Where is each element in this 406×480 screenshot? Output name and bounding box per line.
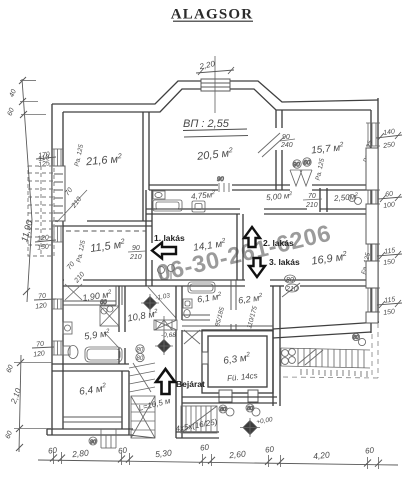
window box with X room 10,8	[154, 320, 177, 330]
wall stub between 6,4 and entry stairs	[129, 435, 155, 438]
window right 60/100	[366, 190, 380, 204]
svg-text:80: 80	[137, 348, 144, 354]
wall between 14,1 and 16,9	[237, 214, 243, 280]
bottom dim ticks	[50, 455, 382, 467]
svg-text:1. lakás: 1. lakás	[154, 233, 185, 243]
room 1,90 walls	[63, 286, 122, 305]
wall between 11,5 and 14,1	[146, 190, 152, 286]
staircase tread dashes below	[301, 369, 367, 377]
door swing 1,90	[65, 284, 82, 300]
right wall pilasters	[366, 148, 378, 323]
main lower band wall y=280	[63, 280, 371, 286]
wall between 6,1 and 6,2	[231, 280, 236, 331]
window left 2 (120/150)	[52, 226, 63, 242]
left wall pilaster between windows	[52, 166, 65, 221]
svg-text:Bejárat: Bejárat	[176, 379, 205, 389]
lower X staircase left of entry	[131, 396, 155, 438]
staircase dashed surround	[283, 323, 378, 378]
entry staircase	[181, 406, 217, 433]
room 21,6 bottom wall	[55, 221, 152, 226]
svg-text:2,80: 2,80	[71, 448, 90, 460]
door swing 14,1 to 10,8	[148, 287, 176, 318]
chimney flue below bottom wall	[89, 429, 116, 448]
svg-text:60: 60	[48, 446, 58, 456]
left dim upper ticks	[19, 77, 30, 295]
washbasin in bathroom	[63, 322, 72, 334]
svg-text:60: 60	[304, 161, 311, 167]
circled 80 labels below 6,3	[219, 404, 260, 416]
svg-text:90: 90	[293, 163, 300, 169]
left dim line upper	[22, 79, 32, 302]
svg-text:80: 80	[286, 277, 294, 284]
svg-text:-0,68: -0,68	[161, 332, 176, 339]
bathroom bottom wall / 6,4 top wall	[52, 364, 129, 371]
bathtub	[85, 347, 122, 362]
window left 4 (70/120)	[52, 341, 63, 355]
arrow Bejárat up	[156, 369, 175, 394]
marker -1,03	[141, 292, 171, 312]
room 6,3 bottom wall	[182, 397, 277, 403]
kitchen stove corridor	[192, 201, 205, 212]
svg-text:80: 80	[137, 356, 144, 362]
chimney on top bump	[201, 79, 230, 91]
left dim line lower	[19, 355, 21, 452]
triangle above -0,68	[156, 316, 172, 338]
shower box with X in 1,90/5,9	[100, 300, 119, 326]
left dim top labels 40 60	[7, 88, 18, 117]
kitchen counter corridor	[153, 200, 182, 211]
window right 140/250 labels	[376, 128, 402, 150]
door threshold marks 20,5	[217, 177, 229, 192]
right outer wall	[371, 98, 378, 333]
svg-text:210: 210	[129, 254, 142, 261]
top-left outer wall	[52, 81, 378, 112]
circled 80 labels above staircase	[352, 333, 365, 345]
wall above 6,3	[182, 326, 273, 331]
arrow 3 down	[249, 258, 265, 277]
svg-text:80: 80	[353, 335, 359, 341]
svg-text:60: 60	[200, 443, 210, 453]
window right 115/150 upper labels	[377, 247, 402, 267]
svg-text:60: 60	[118, 446, 128, 456]
svg-text:70: 70	[308, 193, 316, 200]
svg-text:80: 80	[247, 406, 254, 412]
door label 90/240 with leaders	[258, 133, 295, 157]
door label 70/210 room 21,6	[64, 187, 83, 211]
left dim lower ticks	[16, 359, 24, 451]
left dim lower stubs	[14, 363, 52, 429]
window left 1 labels	[36, 151, 56, 169]
left dim top stubs	[20, 81, 46, 115]
svg-text:ALAGSOR: ALAGSOR	[171, 7, 254, 23]
exterior stair hatch left (dashed)	[28, 166, 54, 256]
window left 3 (70/120)	[52, 299, 63, 309]
kitchen sink box corridor	[153, 191, 165, 199]
marker -0,68	[155, 332, 176, 355]
corridor top wall	[149, 185, 371, 190]
svg-text:4,20: 4,20	[313, 450, 331, 462]
svg-text:90: 90	[132, 245, 140, 252]
svg-text:2. lakás: 2. lakás	[263, 238, 294, 248]
window left 2 labels	[35, 235, 56, 252]
WC in bathroom	[63, 346, 78, 359]
door label 70/210 at 1,90	[66, 261, 86, 285]
window right 115/150 upper	[366, 244, 380, 261]
corridor bottom wall	[146, 209, 371, 214]
left outer wall	[52, 104, 63, 435]
svg-text:60: 60	[265, 445, 275, 455]
stair hatch label 110	[38, 154, 50, 163]
entry bottom wall	[176, 432, 219, 438]
window left 1 (170/125)	[52, 149, 63, 166]
window left 3 labels	[34, 293, 56, 311]
bottom-right wall	[273, 322, 379, 338]
folding door V symbol 15,7	[290, 158, 312, 186]
door label 70/210	[303, 193, 322, 209]
room 6,3 box	[202, 330, 273, 393]
door label 90/210 room 11,5	[128, 245, 146, 261]
wall between 5,9 and 10,8	[119, 286, 125, 364]
svg-text:60: 60	[100, 300, 107, 306]
window right 115/150 lower	[366, 288, 380, 312]
marker +0,00	[240, 416, 274, 437]
washbasin room 6,1	[183, 299, 192, 318]
door swing 21,6 to 11,5	[57, 190, 87, 222]
bottom dim witness stubs	[54, 452, 379, 469]
door swing 5,9	[104, 332, 119, 348]
door label stacked left of entry	[136, 345, 144, 362]
door label 80/210 room 16,9	[282, 275, 300, 297]
bottom dimension line	[38, 460, 398, 465]
bathtub room 6,1	[188, 282, 215, 293]
room 6,4 right wall	[122, 371, 129, 435]
bottom-right exterior staircase	[281, 348, 370, 368]
window left 4 labels	[32, 341, 54, 359]
svg-text:3. lakás: 3. lakás	[269, 257, 300, 267]
svg-text:ΒΠ : 2,55: ΒΠ : 2,55	[183, 118, 230, 130]
room 6,3 piers	[202, 352, 258, 402]
svg-text:2,60: 2,60	[228, 449, 247, 461]
wall between 21,6 and 20,5	[143, 112, 149, 221]
room 6,4 inner bottom wall	[63, 417, 122, 422]
dashed ceiling line room 11,5	[66, 230, 146, 232]
bottom dim numbers	[48, 443, 375, 462]
svg-text:90: 90	[217, 177, 224, 183]
top dim 2,20	[196, 59, 234, 75]
wall between 20,5 and 15,7	[276, 110, 282, 190]
small corner steps left of entry	[129, 363, 155, 392]
svg-text:210: 210	[305, 202, 318, 209]
hinge circles room 14,1	[158, 265, 175, 280]
svg-text:5,30: 5,30	[155, 448, 173, 460]
svg-text:90: 90	[90, 440, 97, 446]
title ALAGSOR	[171, 7, 254, 23]
svg-text:60: 60	[365, 446, 375, 456]
svg-text:210: 210	[285, 286, 298, 293]
svg-text:240: 240	[280, 142, 293, 149]
entry corridor left wall	[176, 286, 182, 438]
left dim lower labels	[5, 364, 23, 440]
window right 140/250	[366, 123, 380, 146]
window right 60/100 labels	[378, 191, 402, 210]
wall right of 6,2	[273, 286, 280, 406]
bottom-left wall	[47, 429, 133, 435]
label BM 2,55	[183, 118, 248, 137]
window right 115/150 lower labels	[377, 296, 402, 317]
door swing X entry corridor	[184, 330, 200, 344]
WC partition wall	[182, 315, 210, 320]
corridor partition wall 5,00/2,50	[320, 188, 327, 212]
svg-text:80: 80	[220, 407, 227, 413]
arrow 2 up	[244, 227, 260, 247]
arrow 1 left	[152, 243, 176, 259]
chimney centerline	[214, 56, 216, 113]
staircase circled markers	[282, 349, 296, 365]
